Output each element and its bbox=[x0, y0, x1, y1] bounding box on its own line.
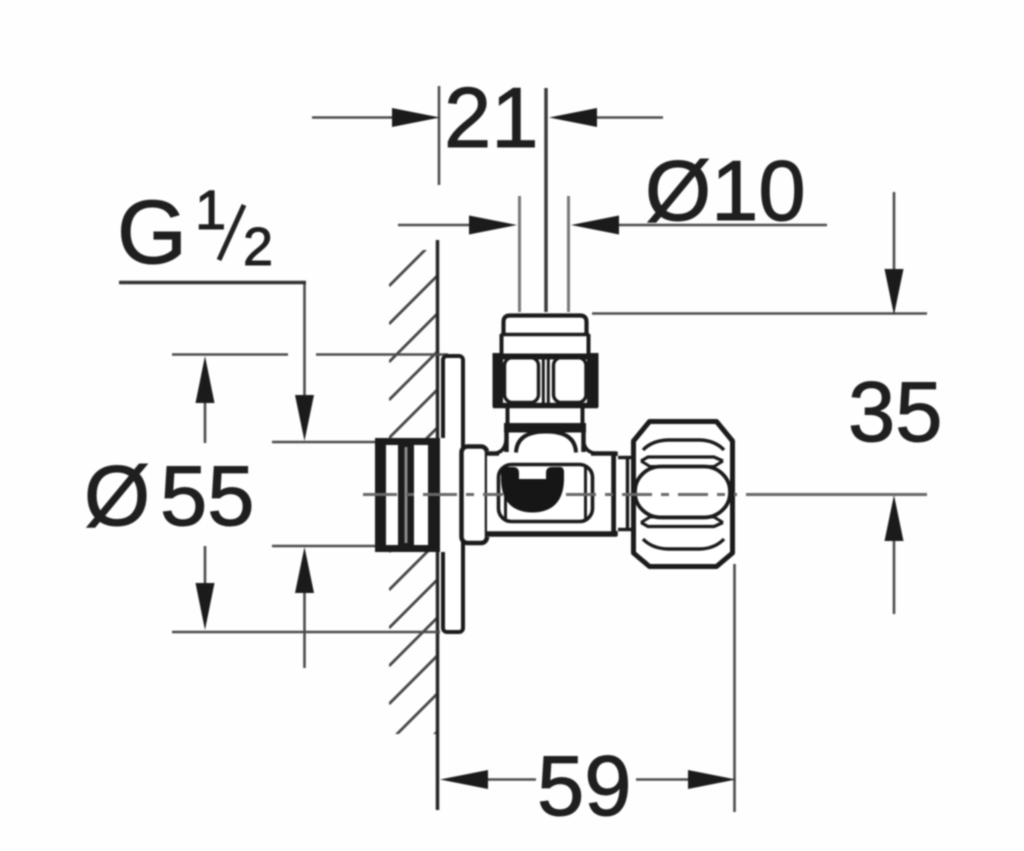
svg-text:Ø10: Ø10 bbox=[645, 144, 806, 239]
svg-text:35: 35 bbox=[848, 365, 943, 460]
svg-text:59: 59 bbox=[537, 739, 632, 834]
svg-text:2: 2 bbox=[243, 217, 273, 277]
svg-text:G: G bbox=[117, 183, 187, 283]
svg-text:1: 1 bbox=[195, 178, 226, 241]
svg-text:55: 55 bbox=[160, 449, 255, 544]
svg-text:21: 21 bbox=[444, 71, 539, 166]
svg-text:Ø: Ø bbox=[84, 449, 150, 544]
